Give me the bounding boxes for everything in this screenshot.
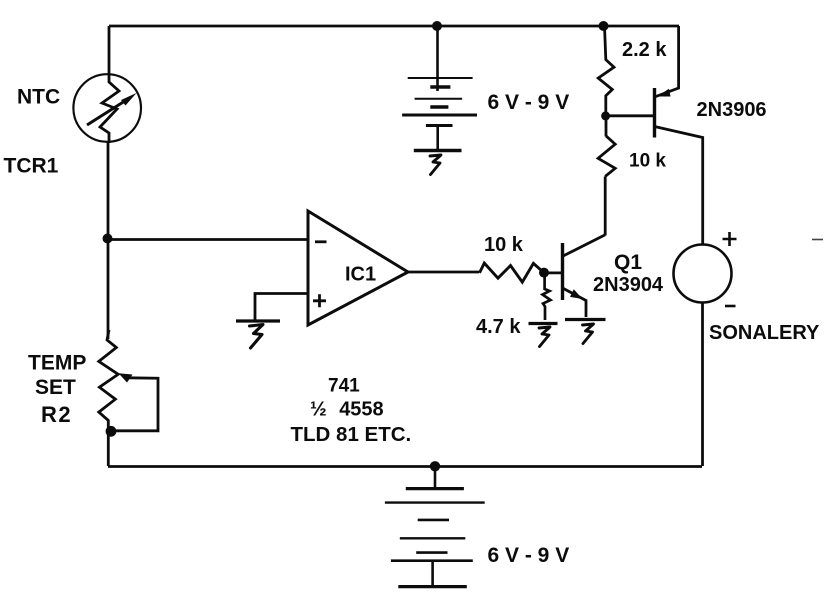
resistor 4.7k <box>543 273 551 321</box>
svg-text:TEMP: TEMP <box>28 352 86 375</box>
svg-text:R2: R2 <box>41 402 72 427</box>
node junction battery top <box>432 21 442 31</box>
wire to op-amp minus input <box>108 238 307 241</box>
svg-text:IC1: IC1 <box>345 264 376 286</box>
svg-text:NTC: NTC <box>17 86 60 109</box>
battery B2 6V-9V <box>385 466 485 587</box>
wire 10k to node <box>605 116 608 137</box>
svg-text:6 V - 9 V: 6 V - 9 V <box>488 544 570 567</box>
wire bottom horizontal <box>108 465 702 468</box>
op-amp IC1 <box>308 211 408 325</box>
ground 4.7k <box>529 324 558 347</box>
svg-text:2.2 k: 2.2 k <box>622 39 667 61</box>
svg-text:2N3906: 2N3906 <box>697 99 767 121</box>
ground battery top <box>414 151 462 175</box>
svg-text:½4558: ½4558 <box>310 399 384 421</box>
svg-text:741: 741 <box>328 376 360 397</box>
svg-text:10 k: 10 k <box>484 234 524 256</box>
svg-text:10 k: 10 k <box>629 151 666 172</box>
sounder SONALERY <box>674 232 737 306</box>
wire node to Q2 base <box>605 114 653 117</box>
transistor 2N3906 <box>655 26 703 245</box>
speck artifact right <box>812 239 823 241</box>
svg-text:6 V - 9 V: 6 V - 9 V <box>488 91 570 114</box>
resistor 10k vertical <box>598 136 615 176</box>
transistor Q1 2N3904 <box>563 235 606 317</box>
wire op-amp plus input <box>255 294 307 321</box>
svg-text:4.7 k: 4.7 k <box>476 316 521 338</box>
wire sounder to bottom <box>701 303 704 467</box>
wire left vertical mid <box>107 141 110 339</box>
thermistor TCR1 <box>73 74 141 143</box>
wire left vertical upper <box>108 26 111 75</box>
potentiometer R2 <box>99 330 158 466</box>
node junction top right <box>599 21 609 31</box>
resistor 2.2k <box>598 26 614 116</box>
svg-text:Q1: Q1 <box>614 251 642 274</box>
svg-text:TCR1: TCR1 <box>4 155 59 178</box>
wire top horizontal <box>109 25 679 28</box>
ground op-amp <box>236 321 280 348</box>
svg-text:SONALERY: SONALERY <box>709 322 820 344</box>
wire op-amp output <box>407 271 479 274</box>
resistor 10k horizontal <box>480 263 544 282</box>
wire to Q1 base <box>544 271 561 274</box>
svg-text:TLD 81 ETC.: TLD 81 ETC. <box>291 423 412 446</box>
node junction divider <box>601 111 610 120</box>
ground Q1 emitter <box>565 320 606 344</box>
node junction battery bottom <box>430 461 440 471</box>
svg-text:SET: SET <box>35 376 76 399</box>
svg-text:2N3904: 2N3904 <box>593 274 664 296</box>
node junction left <box>103 234 113 244</box>
wire Q1 collector vertical <box>604 176 607 235</box>
node junction base Q1 <box>539 268 549 278</box>
battery B1 6V-9V <box>402 26 477 150</box>
